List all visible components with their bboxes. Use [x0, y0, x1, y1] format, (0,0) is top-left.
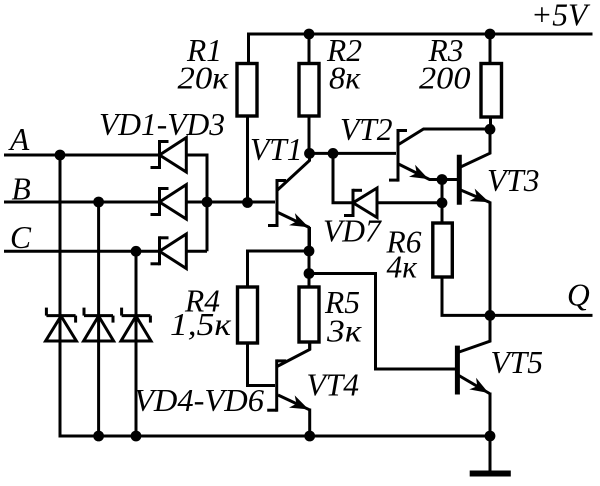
- svg-text:3к: 3к: [326, 314, 362, 349]
- wire collector node: [310, 152, 334, 155]
- input A wire: [4, 154, 160, 157]
- diode VD5 (Schottky): [84, 308, 114, 341]
- svg-text:VD1-VD3: VD1-VD3: [99, 107, 225, 142]
- wire R2 top: [308, 34, 311, 65]
- transistor VT2 base bar (Schottky): [397, 129, 400, 182]
- input C wire: [4, 250, 160, 253]
- wire R1 bottom: [246, 116, 249, 203]
- transistor VT3 collector: [460, 129, 491, 167]
- svg-text:1,5к: 1,5к: [170, 307, 231, 342]
- transistor VT1 collector: [278, 152, 310, 190]
- resistor R1: [237, 64, 257, 117]
- transistor VT4 collector: [277, 341, 310, 367]
- wire VD7 anode: [377, 201, 442, 204]
- junction node: VT5 emitter / ground rail: [485, 431, 496, 442]
- wire VD7 branch: [333, 153, 354, 202]
- wire VT3 base: [442, 178, 457, 181]
- diode VD7 (Schottky): [344, 188, 377, 218]
- wire VT1 emitter down: [308, 227, 311, 252]
- resistor R6: [433, 223, 453, 277]
- svg-text:20к: 20к: [178, 61, 229, 96]
- svg-text:Q: Q: [567, 278, 590, 313]
- wire R3 bottom: [489, 117, 492, 130]
- junction node: input C branch: [131, 246, 142, 257]
- resistor R2: [299, 64, 319, 117]
- junction node: VD7 anode / R6: [437, 197, 448, 208]
- wire VT1 base: [207, 201, 275, 204]
- wire VT3 base to VD7 node: [441, 180, 444, 203]
- transistor VT5 emitter: [458, 375, 490, 394]
- resistor R3: [481, 64, 502, 118]
- wire VT3 emitter down: [489, 202, 492, 316]
- wire VT5 base branch: [309, 274, 456, 370]
- ground symbol: [470, 436, 511, 474]
- junction node: R3 / VT2 collector / VT3 collector: [485, 124, 496, 135]
- transistor VT2 emitter arrow: [409, 165, 429, 179]
- transistor VT3 emitter arrow: [469, 189, 489, 203]
- transistor VT3 base bar: [457, 155, 462, 205]
- junction node: input A branch: [55, 150, 66, 161]
- junction node: emitter / R4 branch: [304, 246, 315, 257]
- transistor VT5 collector: [458, 315, 490, 352]
- transistor VT1 base bar (Schottky): [276, 179, 279, 227]
- transistor VT5 emitter arrow: [469, 378, 488, 393]
- resistor R5: [299, 287, 319, 342]
- svg-text:200: 200: [419, 61, 471, 96]
- svg-text:VT3: VT3: [487, 163, 540, 198]
- wire VT4 emitter down: [308, 409, 311, 437]
- wire VT2 base: [333, 152, 396, 155]
- resistor R4: [238, 287, 258, 343]
- wire VD5 branch vertical (input B): [97, 202, 100, 436]
- svg-text:VT2: VT2: [340, 112, 393, 147]
- transistor VT1 emitter arrow: [289, 213, 309, 227]
- junction node: anode bus / VT1 base: [202, 197, 213, 208]
- junction node: rail / R3: [485, 29, 496, 40]
- junction node: VT4 emitter / ground rail: [304, 431, 315, 442]
- diode VD6 (Schottky): [121, 308, 151, 341]
- transistor VT2 emitter: [399, 164, 443, 180]
- svg-text:VT4: VT4: [307, 368, 360, 403]
- transistor VT4 emitter arrow: [289, 395, 309, 409]
- junction node: VD5 / ground rail: [93, 431, 104, 442]
- wire R4 bottom / VT4 base: [248, 343, 276, 386]
- wire VD6 branch vertical (input C): [135, 251, 138, 436]
- svg-text:VT1: VT1: [250, 132, 303, 167]
- junction node: VT2 emitter / VT3 base: [437, 174, 448, 185]
- wire VD2 anode: [186, 201, 207, 204]
- svg-text:A: A: [8, 122, 30, 157]
- wire R2 bottom: [308, 116, 311, 154]
- input B wire: [4, 201, 160, 204]
- wire VT1 emitter node vertical: [308, 228, 311, 288]
- junction node: emitter / VT5 base branch: [304, 268, 315, 279]
- wire diode anode bus vertical: [206, 154, 209, 252]
- wire R5 bottom: [308, 342, 311, 350]
- wire VD1 anode: [186, 154, 208, 157]
- wire R6 bottom: [442, 277, 490, 315]
- transistor VT2 collector: [399, 129, 491, 145]
- junction node: R1 / VT1 base: [242, 197, 253, 208]
- wire VD4 branch vertical (input A): [59, 155, 62, 438]
- diode VD3 (Schottky): [151, 234, 187, 269]
- wire R4 branch: [248, 251, 310, 288]
- junction node: output Q: [485, 310, 496, 321]
- junction node: rail / R2: [304, 29, 315, 40]
- junction node: VT1 collector / R2: [304, 148, 315, 159]
- svg-text:4к: 4к: [387, 250, 418, 285]
- transistor VT1 emitter: [278, 213, 310, 228]
- svg-text:+5V: +5V: [531, 0, 591, 33]
- transistor VT5 base bar: [455, 346, 460, 395]
- svg-text:VD4-VD6: VD4-VD6: [134, 383, 264, 418]
- junction node: VT2 base / VD7: [328, 148, 339, 159]
- diode VD2 (Schottky): [151, 185, 187, 219]
- junction node: input B branch: [93, 197, 104, 208]
- wire VD3 anode: [186, 250, 207, 253]
- wire R1 top: [247, 33, 250, 66]
- svg-text:VT5: VT5: [491, 345, 544, 380]
- transistor VT4 base bar (Schottky): [275, 359, 278, 411]
- svg-text:C: C: [10, 220, 32, 255]
- transistor VT4 emitter: [278, 395, 310, 410]
- svg-text:VD7: VD7: [323, 214, 382, 249]
- wire VT5 emitter down: [489, 393, 492, 437]
- transistor VT3 emitter: [460, 190, 491, 203]
- diode VD4 (Schottky): [46, 308, 77, 341]
- junction node: VD6 / ground rail: [131, 431, 142, 442]
- +5V power rail wire: [249, 33, 593, 36]
- svg-text:8к: 8к: [329, 61, 361, 96]
- wire R6 top: [441, 203, 444, 224]
- diode VD1 (Schottky): [151, 138, 187, 172]
- wire R3 top: [489, 34, 492, 65]
- ground rail wire: [59, 435, 491, 438]
- output Q wire: [490, 314, 593, 317]
